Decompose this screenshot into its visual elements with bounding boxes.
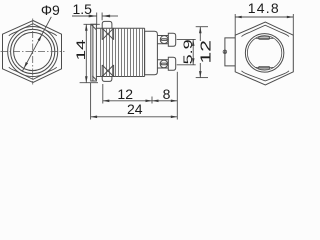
bottom dimension row 1: 12 and 8 xyxy=(103,72,178,120)
left view vertical centerline xyxy=(32,19,34,85)
top terminal screw slot xyxy=(161,39,167,41)
svg-text:14.8: 14.8 xyxy=(248,0,280,16)
right view top slot xyxy=(259,37,270,40)
right view nut chamfer bottom line xyxy=(242,71,290,81)
leader arrow upper xyxy=(38,35,42,41)
leader line for dia 9 xyxy=(22,17,51,72)
rear housing xyxy=(145,31,158,75)
right view nut chamfer roof line xyxy=(242,25,290,36)
tab hole xyxy=(223,50,227,54)
dimension 5.9 xyxy=(177,39,196,64)
left view nut chamfer bottom line xyxy=(9,67,57,79)
left view nut chamfer roof line xyxy=(9,24,57,36)
top terminal bracket xyxy=(168,33,175,46)
dimension 12 right xyxy=(196,27,208,78)
bottom dimension row 2: 24 xyxy=(91,83,178,120)
right view bottom chord xyxy=(256,66,274,68)
svg-text:8: 8 xyxy=(163,86,171,102)
svg-text:5.9: 5.9 xyxy=(181,39,195,64)
bottom terminal screw head xyxy=(160,60,168,68)
anti-rotation nut bottom bump xyxy=(102,77,112,82)
nut bottom cross xyxy=(102,65,113,77)
leader arrow lower xyxy=(24,62,28,68)
tab hole cross xyxy=(224,51,227,54)
dimension 14.8 xyxy=(235,14,293,35)
left view horizontal centerline xyxy=(1,51,65,53)
threads xyxy=(101,28,143,76)
flange top chamfer xyxy=(91,25,96,30)
svg-text:24: 24 xyxy=(127,101,143,117)
top terminal neck xyxy=(157,36,168,44)
bottom terminal neck xyxy=(157,60,168,68)
left view bezel circle xyxy=(8,27,58,77)
top terminal screw head xyxy=(160,36,168,44)
svg-text:12: 12 xyxy=(117,86,133,102)
right view big circle xyxy=(245,34,284,73)
dimension 1.5 xyxy=(72,13,118,26)
flange bottom chamfer xyxy=(92,76,96,80)
bottom terminal screw slot xyxy=(161,63,167,65)
right view top chord xyxy=(256,37,274,39)
nut top cross xyxy=(102,28,113,40)
flange (side view front bezel) xyxy=(91,24,97,81)
side tab xyxy=(225,38,235,66)
barrel outline bottom xyxy=(96,76,144,78)
flange inner edge line xyxy=(92,24,94,81)
svg-text:14: 14 xyxy=(75,39,88,60)
svg-text:1.5: 1.5 xyxy=(72,1,92,17)
svg-text:Φ9: Φ9 xyxy=(41,2,60,18)
right view outer hexagon xyxy=(235,22,293,85)
right view bottom slot xyxy=(259,66,270,69)
anti-rotation nut top bump xyxy=(102,21,112,28)
barrel end line xyxy=(144,28,146,76)
left view hexagon xyxy=(3,21,62,83)
left view middle circle xyxy=(11,29,55,73)
right view inner circle xyxy=(247,36,281,70)
dimension 14 xyxy=(80,24,100,82)
left view inner circle xyxy=(14,32,52,70)
barrel outline top xyxy=(96,27,144,29)
bottom terminal bracket xyxy=(168,57,175,70)
svg-text:12: 12 xyxy=(197,40,213,63)
